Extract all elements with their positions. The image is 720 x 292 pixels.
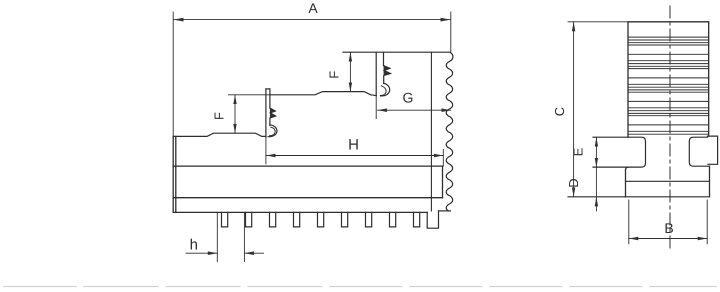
H right extension [442,150,444,167]
extension line left for A [172,12,174,136]
right groove (rounded inner end) [689,137,709,166]
jaw left face (double line) [173,136,176,212]
tooth root line [173,211,427,213]
H extension below tongue T1 [265,137,267,164]
dimension F2 [349,52,352,91]
dimension h [186,213,264,262]
svg-text:A: A [308,0,318,16]
left groove (rounded inner end) [593,137,646,167]
dimension C [568,22,628,197]
dimension E [595,137,598,167]
svg-text:F: F [212,112,227,120]
top block outline [628,22,709,137]
right-end tooth block [427,211,438,228]
scallop column bottom edge [439,210,451,212]
base rail right edge [442,166,444,198]
scalloped serrated right edge [446,53,453,211]
extension line right for A [450,12,452,52]
svg-text:H: H [348,137,359,154]
extension line for F1 (middle surface extended left) [229,94,270,96]
rack teeth notches [222,212,420,227]
dimension F1 [233,95,236,133]
svg-text:h: h [190,237,198,254]
serration lines in top block [629,37,709,134]
dimension G [378,108,451,112]
svg-text:B: B [664,220,673,236]
centerline [669,6,671,248]
svg-text:C: C [552,107,567,116]
serrated tongue T2 (top step left face) [376,52,390,96]
svg-text:F: F [326,71,341,79]
dimension H [266,154,443,158]
dimension D (arrows outside) [595,167,598,211]
base rail bottom line [173,197,442,199]
dimension A line [173,18,450,22]
right tab (cut off by edge) [707,136,717,164]
serrated column left boundary [430,52,432,211]
faint table border strip at bottom [4,286,716,288]
serrated tongue T1 (middle step left face) [266,89,277,137]
svg-text:E: E [571,147,586,156]
top step surface [343,51,450,53]
base rail top line [173,165,442,167]
svg-text:G: G [403,90,414,106]
dimension B [629,200,707,244]
flange below grooves [625,170,627,197]
middle step surface [270,92,376,96]
lower step surface [173,133,266,136]
G extension below tongue T2 [375,96,377,119]
